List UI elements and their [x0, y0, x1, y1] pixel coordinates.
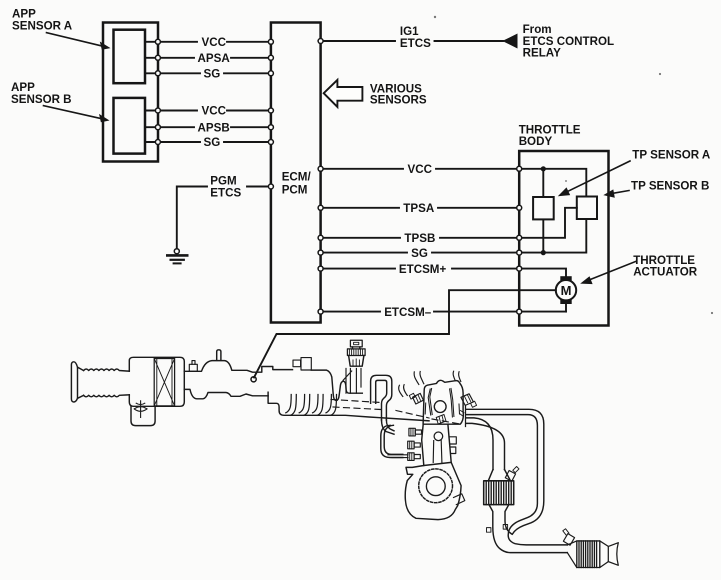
- duct clamp fitting: [189, 364, 197, 371]
- svg-text:M: M: [561, 283, 572, 298]
- TB internal: ETCSM+ to motor: [519, 269, 566, 277]
- rear converter (muffler): [567, 541, 577, 568]
- connector circles APP box: [155, 39, 521, 315]
- svg-text:ETCSM–: ETCSM–: [384, 306, 432, 319]
- O2 sensor 2: [563, 534, 574, 546]
- valve cover: [423, 380, 463, 424]
- plenum bottom and comb runners: [268, 392, 429, 421]
- EVAP down leg: [382, 420, 395, 434]
- spark plug wires: [414, 372, 424, 385]
- svg-text:ETCS: ETCS: [400, 37, 431, 50]
- oil cap circle: [434, 401, 446, 413]
- svg-text:VCC: VCC: [202, 36, 227, 49]
- runner 2: [299, 395, 310, 416]
- svg-text:APSA: APSA: [198, 52, 231, 65]
- wire APSB: [145, 126, 270, 128]
- converter bottom cone and down pipe: [489, 505, 567, 553]
- left injector (hatched): [413, 393, 424, 404]
- TB internal: ETCSM to motor: [565, 304, 567, 312]
- wire APSA: [145, 57, 270, 59]
- EVAP staple pipe: [371, 375, 392, 420]
- svg-text:BODY: BODY: [519, 135, 553, 148]
- flywheel ring gear (dotted): [419, 469, 453, 503]
- oil pan / transmission: [405, 462, 461, 519]
- APP sensor outer connector box: [103, 23, 158, 162]
- wire SG (APP B): [145, 141, 270, 143]
- svg-text:VCC: VCC: [408, 163, 433, 176]
- svg-text:ACTUATOR: ACTUATOR: [633, 265, 698, 278]
- TB internal: VCC branch: [519, 169, 586, 197]
- runner 3: [313, 395, 324, 416]
- ground symbol: [167, 255, 187, 263]
- svg-text:SG: SG: [411, 247, 428, 260]
- purge valve cap: [350, 340, 362, 347]
- pan stub: [454, 494, 465, 505]
- engine block: [422, 424, 452, 465]
- ECM/PCM box: [271, 23, 321, 323]
- exhaust feed pipe to converter: [466, 418, 493, 470]
- wire ETCSM: [321, 311, 566, 313]
- purge pillar bracket: [343, 369, 361, 394]
- svg-text:TPSB: TPSB: [404, 232, 435, 245]
- svg-text:PCM: PCM: [282, 184, 308, 197]
- APP sensor A inner box: [114, 30, 146, 83]
- catalytic converter 1: [484, 481, 514, 505]
- exhaust tip flare: [608, 543, 618, 566]
- purge valve body: [347, 349, 365, 356]
- svg-text:SENSOR A: SENSOR A: [12, 19, 73, 32]
- TB internal: TPSB jog: [519, 208, 577, 238]
- duct to plenum: top edge: [184, 361, 292, 373]
- wire PGM ETCS with ground drop: [177, 187, 270, 250]
- scan specks: [434, 16, 436, 18]
- wire TPSA: [321, 207, 520, 209]
- hidden edge dashes: [331, 400, 460, 425]
- flange nubs: [487, 528, 491, 533]
- svg-text:APSB: APSB: [198, 121, 230, 134]
- motor left lead to engine leader: [254, 290, 556, 377]
- purge valve lower trapezoid: [349, 356, 364, 367]
- air cleaner lower chamber: [131, 406, 155, 425]
- cover V details: [425, 389, 459, 418]
- svg-text:ETCS: ETCS: [210, 186, 241, 199]
- svg-text:SENSOR B: SENSOR B: [11, 93, 72, 106]
- leader end circle on engine: [251, 377, 256, 382]
- svg-text:TPSA: TPSA: [403, 202, 435, 215]
- label leader arrow THROTTLE ACTUATOR: [586, 262, 636, 282]
- IACV boxes on plenum: [293, 360, 301, 367]
- TB internal: SG branch: [519, 219, 586, 253]
- wire ETCSM+: [321, 268, 520, 270]
- duct stub pin: [217, 350, 221, 361]
- right injector (hatched): [461, 394, 474, 406]
- svg-text:TP SENSOR B: TP SENSOR B: [631, 179, 709, 192]
- connector circles throttle body: [517, 166, 522, 171]
- svg-text:SG: SG: [204, 136, 221, 149]
- label leader arrow APP SENSOR A: [47, 33, 105, 47]
- throttle body box: [519, 151, 608, 326]
- exhaust upper loop pipe: [466, 409, 544, 534]
- converter top cone and O2 sensor: [488, 470, 510, 481]
- fuel line to rail: [388, 455, 408, 458]
- svg-text:TP SENSOR A: TP SENSOR A: [632, 149, 711, 162]
- intake bellows duct: [84, 369, 130, 371]
- connector circles ECM left: [268, 39, 273, 44]
- throttle actuator motor M: [560, 276, 571, 281]
- svg-text:ECM/: ECM/: [282, 170, 312, 183]
- label leader arrow TP SENSOR A: [564, 161, 630, 193]
- wire TPSB: [321, 237, 520, 239]
- svg-text:ETCSM+: ETCSM+: [399, 263, 447, 276]
- air cleaner housing: [129, 357, 184, 406]
- intake trumpet: [71, 362, 83, 402]
- TP sensor B box: [577, 197, 597, 220]
- engine exhaust flange: [465, 406, 467, 427]
- wire VCC (throttle body): [321, 168, 520, 170]
- wire SG (APP A): [145, 72, 270, 74]
- label leader arrow APP SENSOR B: [44, 106, 104, 119]
- wire VCC (APP A): [145, 41, 270, 43]
- APP sensor B inner box: [114, 98, 146, 154]
- connector circles ECM right: [318, 39, 323, 44]
- junction dots: [541, 166, 546, 171]
- fuel rail bolts: [408, 428, 422, 460]
- runner 4: [326, 395, 337, 416]
- TP sensor A box: [533, 197, 554, 219]
- plenum top edge with S-dip: [311, 370, 362, 400]
- svg-text:SG: SG: [204, 67, 221, 80]
- wire IG1 ETCS: [321, 40, 503, 42]
- arrowhead: From ETCS CONTROL RELAY: [504, 34, 518, 47]
- duct bottom edge: [184, 389, 268, 398]
- label leader arrow TP SENSOR B: [610, 191, 629, 194]
- air filter element (X): [154, 359, 174, 406]
- runner 1: [286, 395, 297, 416]
- U-pipe at block: [381, 425, 403, 457]
- block arrow VARIOUS SENSORS: [324, 80, 363, 107]
- svg-text:SENSORS: SENSORS: [370, 94, 427, 107]
- wire SG (throttle body): [321, 252, 520, 254]
- svg-text:RELAY: RELAY: [523, 47, 561, 60]
- cam hatched detail: [436, 415, 446, 425]
- ENGINE ILLUSTRATION: [71, 340, 618, 567]
- wire VCC (APP B): [145, 110, 270, 112]
- svg-text:VCC: VCC: [202, 105, 227, 118]
